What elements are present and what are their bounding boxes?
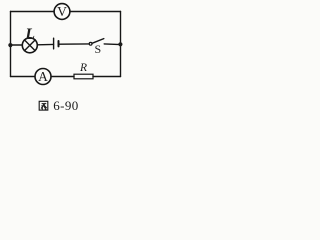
wire bottom-left segment [11,76,35,78]
wire ammeter-to-resistor [51,76,74,78]
resistor R [74,62,93,79]
lamp L [22,26,37,53]
wire left vertical [10,12,12,77]
node junction left [8,43,12,47]
wire lamp-to-battery [38,43,54,45]
wire battery-to-switch [60,43,90,45]
svg-text:V: V [57,4,67,19]
voltmeter V [54,4,70,20]
wire top-left segment [11,11,54,13]
wire top-right segment [70,11,120,13]
svg-text:A: A [38,69,48,84]
svg-text:L: L [24,26,35,43]
svg-text:S: S [95,42,102,56]
node junction right [118,42,122,46]
wire switch-to-right [104,43,120,46]
wire middle-left segment [11,44,23,46]
wire resistor-to-right [93,76,121,78]
svg-text:6-90: 6-90 [53,98,78,113]
battery [54,38,59,49]
ammeter A [35,69,51,85]
switch S [89,39,104,57]
caption 图 6-90 [39,98,78,113]
wire right vertical [120,12,122,77]
svg-text:R: R [79,62,87,74]
